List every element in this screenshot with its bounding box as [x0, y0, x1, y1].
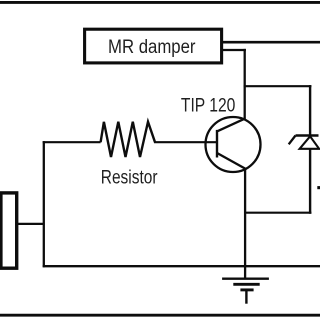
svg-text:TIP 120: TIP 120: [181, 95, 236, 116]
wire: base wire from resistor to base: [154, 141, 217, 143]
wire: left wire to resistor: [43, 141, 101, 143]
resistor: [101, 122, 155, 157]
MR damper (load) box: [85, 29, 222, 63]
zener diode: [289, 136, 319, 149]
wire: zener anode to emitter line: [245, 212, 311, 214]
wire: zener anode vertical: [309, 148, 311, 214]
cropped label fragment at right edge: [317, 186, 320, 189]
svg-text:Resistor: Resistor: [101, 168, 158, 189]
decorative top border: [0, 1, 320, 4]
ground: [222, 266, 269, 304]
wire: branch from collector node to zener: [244, 85, 312, 87]
wire: supply line from MR damper box to right edge: [222, 41, 320, 44]
wire: zener cathode vertical: [309, 85, 311, 136]
wire: emitter vertical: [244, 168, 246, 267]
wire: collector vertical: [244, 49, 246, 120]
svg-text:MR damper: MR damper: [108, 37, 196, 58]
transistor Q1 TIP 120: [206, 117, 261, 172]
decorative bottom border: [0, 314, 320, 317]
wire: left box to left rail: [16, 223, 44, 225]
wire: bottom rail: [43, 265, 320, 267]
left box (cropped component): [1, 193, 17, 268]
wire: left vertical rail: [43, 141, 45, 267]
wire: MR damper box to collector node: [222, 49, 246, 51]
